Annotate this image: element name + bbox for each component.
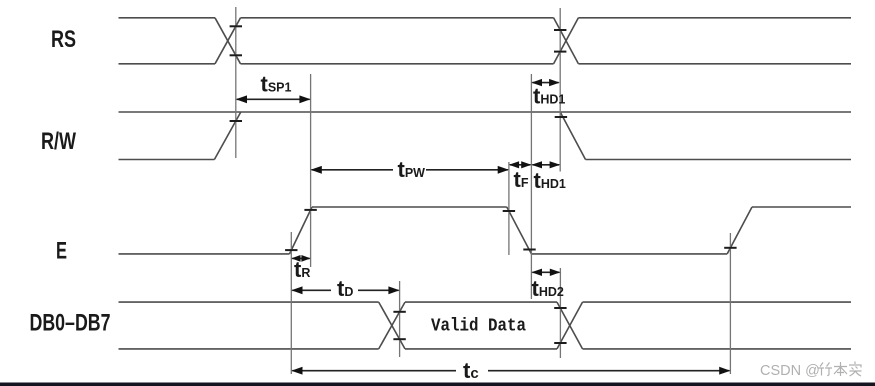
node reference line v8 tC left bbox=[290, 232, 292, 374]
node reference line v2 tSP1 right bbox=[310, 74, 312, 267]
wire DB bottom mid bbox=[405, 348, 557, 350]
tick E rise2 bbox=[724, 247, 736, 249]
tick DB X2 upper bbox=[554, 307, 566, 309]
tick DB X1 upper bbox=[393, 311, 405, 313]
tick RS X2 lower bbox=[554, 51, 566, 53]
wire E rising edge 1 bbox=[290, 207, 313, 254]
node reference line v1 at RS X1 bbox=[235, 7, 237, 158]
watermark glyph zhu bbox=[818, 363, 832, 376]
wire RW rising edge bbox=[214, 112, 240, 160]
wire RS high mid bbox=[241, 17, 554, 19]
wire RW low right bbox=[586, 159, 852, 161]
tick DB X1 lower bbox=[393, 338, 405, 340]
wire DB crossover X1 falling bbox=[379, 302, 405, 349]
watermark glyph ben bbox=[834, 362, 847, 376]
wire RS high left bbox=[119, 17, 216, 19]
wire RS crossover X2 falling bbox=[554, 18, 579, 64]
wire RW low left bbox=[119, 159, 215, 161]
wire RS crossover X1 rising bbox=[215, 18, 241, 64]
wire RS crossover X1 falling bbox=[215, 18, 241, 64]
dimension arrow tPW bbox=[312, 169, 393, 171]
wire DB bottom right bbox=[583, 348, 852, 350]
dimension arrow tHD2 bbox=[532, 271, 559, 273]
wire DB top mid bbox=[405, 301, 557, 303]
wire DB top right bbox=[583, 301, 852, 303]
wire E high pulse bbox=[312, 206, 507, 208]
wire RS high right bbox=[578, 17, 851, 19]
wire DB bottom left bbox=[119, 348, 379, 350]
node reference line v4 tPW right bbox=[508, 162, 510, 255]
watermark glyph shi bbox=[849, 362, 862, 377]
node reference line v9 tC right bbox=[729, 233, 731, 374]
tick DB X2 lower bbox=[554, 342, 566, 344]
svg-text:Valid Data: Valid Data bbox=[431, 317, 526, 337]
wire E high right bbox=[752, 206, 851, 208]
svg-text:R/W: R/W bbox=[41, 128, 76, 155]
dimension arrow tSP1 bbox=[237, 98, 310, 100]
wire RW falling edge bbox=[560, 112, 585, 160]
tick E fall top bbox=[503, 210, 515, 212]
svg-text:CSDN @: CSDN @ bbox=[760, 363, 820, 379]
wire RS low left bbox=[119, 63, 216, 65]
bottom border bar bbox=[0, 383, 875, 386]
tick RW falling edge bbox=[555, 116, 567, 118]
wire DB top left bbox=[119, 301, 379, 303]
tick RS X1 lower bbox=[230, 54, 242, 56]
wire DB crossover X1 rising bbox=[379, 302, 405, 349]
node reference line v3 tD right bbox=[399, 281, 401, 357]
wire E low left bbox=[119, 253, 290, 255]
tick RS X1 upper bbox=[230, 25, 242, 27]
wire E falling edge bbox=[507, 207, 532, 254]
wire E rising edge 2 bbox=[727, 207, 752, 254]
tick RW rising edge bbox=[230, 120, 242, 122]
tick E rise1 bottom bbox=[285, 249, 297, 251]
svg-text:E: E bbox=[56, 238, 67, 265]
wire DB crossover X2 falling bbox=[557, 302, 583, 349]
node reference line v7 at DB X2 bbox=[559, 268, 561, 358]
dimension arrow tHD1 upper bbox=[532, 82, 558, 84]
wire E low mid bbox=[531, 253, 727, 255]
tick RS X2 upper bbox=[554, 29, 566, 31]
dimension arrow tF bbox=[510, 164, 531, 166]
tick E fall bottom bbox=[523, 249, 535, 251]
dimension arrow tC bbox=[292, 370, 456, 372]
dimension arrow tD bbox=[292, 289, 331, 291]
svg-text:RS: RS bbox=[51, 26, 76, 53]
wire RS crossover X2 rising bbox=[554, 18, 579, 64]
dimension arrow tHD1 lower bbox=[532, 164, 559, 166]
wire RS low mid bbox=[241, 63, 554, 65]
wire RS low right bbox=[578, 63, 851, 65]
node reference line v5 tF right bbox=[530, 74, 532, 299]
wire RW high rail bbox=[119, 111, 852, 113]
node reference line v6 at RS X2 bbox=[559, 8, 561, 172]
dimension arrow tR bbox=[292, 257, 309, 259]
wire DB crossover X2 rising bbox=[557, 302, 583, 349]
svg-text:DB0–DB7: DB0–DB7 bbox=[30, 310, 111, 337]
tick E rise1 top bbox=[304, 209, 316, 211]
